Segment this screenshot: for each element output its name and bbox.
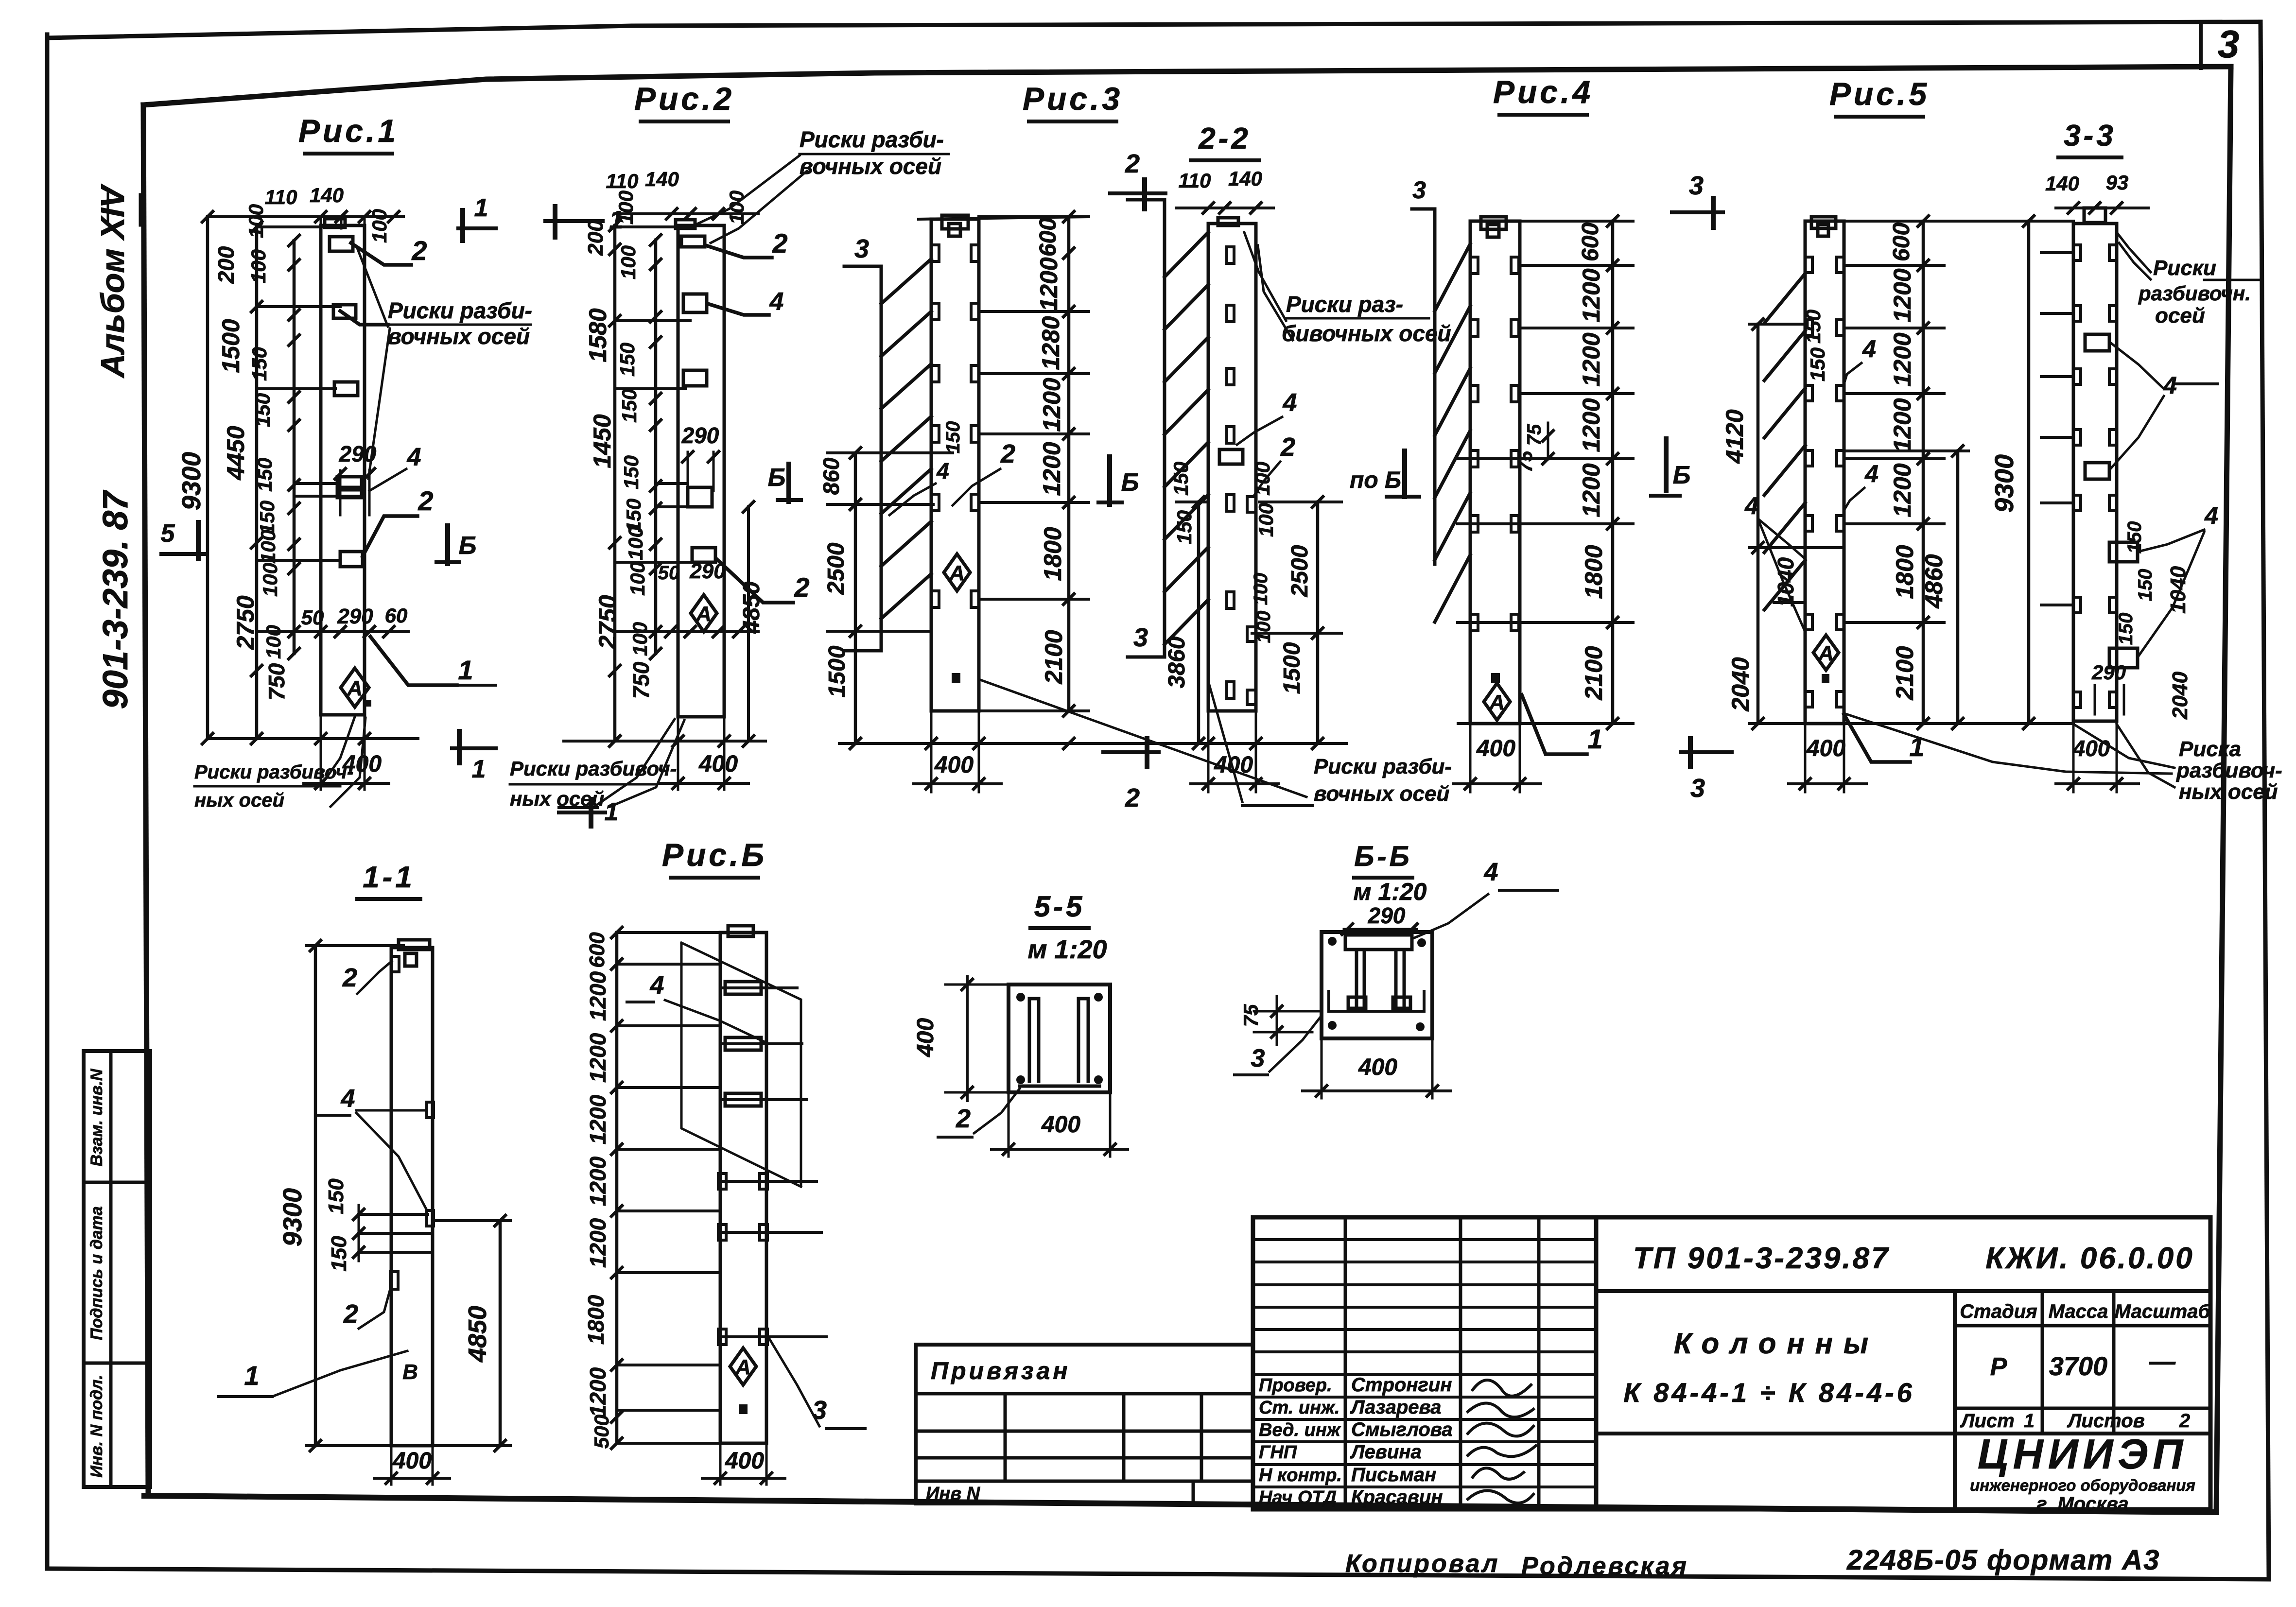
svg-text:4: 4 <box>2204 502 2218 529</box>
svg-text:2: 2 <box>1280 432 1295 462</box>
svg-text:100: 100 <box>624 526 647 560</box>
svg-text:2100: 2100 <box>1040 630 1067 684</box>
svg-text:Письман: Письман <box>1351 1464 1436 1486</box>
svg-text:4: 4 <box>1862 335 1876 363</box>
svg-text:Стронгин: Стронгин <box>1351 1374 1452 1396</box>
svg-text:4120: 4120 <box>1721 409 1748 464</box>
svg-text:1200: 1200 <box>1038 378 1065 432</box>
svg-text:2: 2 <box>1125 149 1140 178</box>
svg-text:3860: 3860 <box>1164 636 1190 688</box>
svg-text:Лазарева: Лазарева <box>1350 1397 1441 1418</box>
svg-text:вочных осей: вочных осей <box>388 324 530 349</box>
svg-text:2-2: 2-2 <box>1198 122 1251 156</box>
svg-text:600: 600 <box>1889 223 1914 261</box>
svg-text:1800: 1800 <box>1580 545 1607 599</box>
svg-text:400: 400 <box>698 751 738 777</box>
svg-text:400: 400 <box>913 1018 939 1057</box>
svg-text:4: 4 <box>650 971 664 1000</box>
svg-text:600: 600 <box>585 932 609 968</box>
svg-text:150: 150 <box>1806 347 1829 381</box>
svg-text:А: А <box>1489 691 1505 714</box>
svg-text:290: 290 <box>337 605 373 628</box>
svg-text:93: 93 <box>2106 171 2129 194</box>
svg-text:2750: 2750 <box>594 595 621 649</box>
svg-text:г. Москва: г. Москва <box>2036 1493 2128 1515</box>
svg-text:100: 100 <box>626 562 649 596</box>
svg-text:Рис.5: Рис.5 <box>1829 76 1930 112</box>
svg-text:ных осей: ных осей <box>2179 780 2278 804</box>
svg-text:Риски разби-: Риски разби- <box>1314 755 1452 778</box>
svg-text:по Б: по Б <box>1350 467 1401 493</box>
svg-text:1: 1 <box>2024 1410 2035 1432</box>
svg-text:Лист: Лист <box>1960 1410 2015 1432</box>
svg-text:750: 750 <box>628 661 654 699</box>
svg-text:150: 150 <box>327 1236 351 1272</box>
svg-text:1200: 1200 <box>1578 463 1605 517</box>
svg-text:110: 110 <box>606 170 639 192</box>
svg-text:1200: 1200 <box>1889 398 1916 452</box>
svg-text:1200: 1200 <box>1038 442 1065 496</box>
svg-text:Привязан: Привязан <box>931 1357 1071 1384</box>
svg-text:4450: 4450 <box>222 426 249 480</box>
svg-text:150: 150 <box>256 501 278 535</box>
svg-text:1: 1 <box>605 798 619 826</box>
svg-text:100: 100 <box>725 190 748 225</box>
svg-text:600: 600 <box>1035 218 1061 257</box>
svg-text:2040: 2040 <box>2168 672 2192 720</box>
svg-text:1200: 1200 <box>1578 332 1605 386</box>
svg-text:бивочных осей: бивочных осей <box>1282 321 1451 346</box>
svg-text:200: 200 <box>213 246 239 284</box>
svg-text:140: 140 <box>645 168 679 190</box>
svg-text:м 1:20: м 1:20 <box>1354 878 1427 905</box>
svg-text:Рис.1: Рис.1 <box>298 113 399 149</box>
svg-text:150: 150 <box>616 343 639 377</box>
svg-text:150: 150 <box>620 455 643 489</box>
svg-text:Листов: Листов <box>2067 1410 2145 1432</box>
svg-text:100: 100 <box>247 249 270 283</box>
svg-text:400: 400 <box>1041 1112 1080 1138</box>
svg-text:Риски: Риски <box>2153 256 2216 280</box>
svg-text:1200: 1200 <box>1035 257 1062 311</box>
svg-text:901-3-239. 87: 901-3-239. 87 <box>96 490 135 709</box>
svg-text:3-3: 3-3 <box>2064 119 2116 153</box>
svg-text:400: 400 <box>1358 1054 1397 1080</box>
svg-text:2750: 2750 <box>232 595 259 650</box>
svg-text:140: 140 <box>310 184 344 207</box>
svg-text:Взам. инв.N: Взам. инв.N <box>87 1068 106 1166</box>
svg-text:Б: Б <box>459 532 477 560</box>
svg-text:110: 110 <box>265 186 297 208</box>
svg-text:4: 4 <box>936 458 949 484</box>
svg-text:150: 150 <box>618 389 641 423</box>
svg-text:3: 3 <box>812 1396 827 1425</box>
svg-text:2100: 2100 <box>1580 646 1607 700</box>
svg-text:Риски раз-: Риски раз- <box>1286 292 1403 317</box>
svg-text:9300: 9300 <box>1990 454 2019 513</box>
svg-text:100: 100 <box>257 530 279 564</box>
svg-text:разбивоч-: разбивоч- <box>2176 759 2282 782</box>
svg-text:Подпись и дата: Подпись и дата <box>87 1206 106 1340</box>
svg-text:150: 150 <box>942 421 964 454</box>
svg-text:Инв. N подл.: Инв. N подл. <box>87 1375 106 1478</box>
svg-text:75: 75 <box>1239 1004 1262 1027</box>
svg-text:Рис.2: Рис.2 <box>634 81 734 117</box>
svg-text:2: 2 <box>1125 783 1140 812</box>
svg-text:290: 290 <box>681 423 719 448</box>
svg-text:Вед. инж: Вед. инж <box>1259 1420 1341 1440</box>
svg-text:1500: 1500 <box>824 645 850 697</box>
svg-text:150: 150 <box>1173 510 1196 544</box>
svg-text:Левина: Левина <box>1350 1441 1422 1463</box>
svg-text:ГНП: ГНП <box>1259 1442 1297 1463</box>
svg-text:100: 100 <box>1254 503 1277 537</box>
svg-text:м 1:20: м 1:20 <box>1027 935 1107 964</box>
svg-text:1800: 1800 <box>583 1295 609 1345</box>
svg-text:100: 100 <box>368 209 391 243</box>
svg-text:3: 3 <box>1412 176 1426 204</box>
svg-text:2: 2 <box>417 485 433 516</box>
svg-text:1580: 1580 <box>584 308 611 362</box>
svg-text:150: 150 <box>1169 462 1192 496</box>
svg-text:3: 3 <box>1690 774 1705 803</box>
svg-text:150: 150 <box>251 393 274 427</box>
svg-text:2: 2 <box>956 1104 971 1133</box>
svg-text:1040: 1040 <box>2166 566 2190 614</box>
svg-text:Б: Б <box>1121 468 1139 497</box>
svg-text:150: 150 <box>248 347 271 381</box>
svg-text:2: 2 <box>772 228 787 259</box>
svg-text:ЦНИИЭП: ЦНИИЭП <box>1978 1431 2188 1478</box>
svg-text:Рис.4: Рис.4 <box>1493 74 1593 110</box>
svg-text:Инв N: Инв N <box>926 1484 981 1504</box>
svg-text:1800: 1800 <box>1891 545 1918 599</box>
svg-text:1200: 1200 <box>1578 398 1605 452</box>
svg-text:2040: 2040 <box>1727 657 1754 711</box>
svg-text:1500: 1500 <box>1279 642 1305 694</box>
svg-text:100: 100 <box>1253 611 1274 643</box>
svg-text:Риски разби-: Риски разби- <box>800 127 944 152</box>
svg-text:2: 2 <box>2179 1410 2190 1432</box>
svg-text:600: 600 <box>1578 223 1603 261</box>
svg-text:А: А <box>735 1355 751 1379</box>
svg-text:400: 400 <box>934 752 974 778</box>
svg-text:Н контр.: Н контр. <box>1259 1465 1342 1486</box>
svg-text:Масса: Масса <box>2049 1301 2108 1322</box>
svg-text:290: 290 <box>1368 903 1406 928</box>
svg-text:100: 100 <box>244 204 267 238</box>
svg-text:вочных осей: вочных осей <box>800 154 941 179</box>
svg-text:Масштаб: Масштаб <box>2115 1301 2211 1322</box>
svg-text:1450: 1450 <box>589 414 616 468</box>
svg-text:400: 400 <box>2072 736 2110 761</box>
svg-text:А: А <box>949 561 965 585</box>
svg-text:1200: 1200 <box>585 1156 610 1206</box>
svg-text:50: 50 <box>658 562 680 584</box>
svg-text:100: 100 <box>1251 462 1274 496</box>
svg-text:150: 150 <box>2115 613 2137 645</box>
svg-text:4860: 4860 <box>1920 554 1948 608</box>
svg-text:Р: Р <box>1990 1353 2007 1381</box>
svg-text:4850: 4850 <box>464 1306 492 1363</box>
svg-text:Б: Б <box>768 464 786 492</box>
svg-text:750: 750 <box>264 663 289 700</box>
svg-text:3: 3 <box>1133 623 1148 652</box>
svg-text:400: 400 <box>392 1448 432 1474</box>
svg-text:Риски разбивоч-: Риски разбивоч- <box>510 757 677 780</box>
svg-text:1: 1 <box>1587 724 1602 754</box>
svg-text:2: 2 <box>1000 439 1015 468</box>
svg-text:2: 2 <box>411 235 427 266</box>
svg-text:Альбом XIV: Альбом XIV <box>94 183 131 379</box>
svg-text:Стадия: Стадия <box>1960 1301 2037 1322</box>
svg-text:4: 4 <box>1744 492 1758 519</box>
svg-text:3: 3 <box>1689 171 1704 200</box>
svg-text:Б-Б: Б-Б <box>1354 841 1412 872</box>
svg-text:Рис.Б: Рис.Б <box>662 837 767 873</box>
svg-text:4: 4 <box>1283 389 1297 417</box>
svg-text:100: 100 <box>628 622 651 656</box>
svg-text:400: 400 <box>1476 736 1515 761</box>
svg-text:1200: 1200 <box>585 1218 610 1268</box>
svg-text:2100: 2100 <box>1891 646 1918 700</box>
svg-text:100: 100 <box>617 245 640 279</box>
svg-text:1200: 1200 <box>585 1094 610 1144</box>
svg-text:50: 50 <box>301 606 324 629</box>
svg-text:4850: 4850 <box>739 581 765 634</box>
svg-text:1200: 1200 <box>1578 268 1605 322</box>
svg-text:150: 150 <box>324 1178 348 1214</box>
svg-text:2248Б-05 формат А3: 2248Б-05 формат А3 <box>1846 1544 2160 1576</box>
svg-text:Риски разби-: Риски разби- <box>388 298 532 323</box>
svg-text:3: 3 <box>2218 22 2240 66</box>
svg-text:А: А <box>1818 641 1834 665</box>
svg-text:А: А <box>696 602 712 626</box>
svg-text:400: 400 <box>1214 752 1253 778</box>
svg-text:4: 4 <box>2163 372 2177 399</box>
svg-text:60: 60 <box>385 604 408 627</box>
svg-text:2500: 2500 <box>823 542 849 595</box>
svg-text:КЖИ. 06.0.00: КЖИ. 06.0.00 <box>1985 1242 2194 1275</box>
svg-text:5: 5 <box>161 519 175 548</box>
svg-text:1280: 1280 <box>1037 316 1064 370</box>
svg-text:2: 2 <box>342 963 357 992</box>
svg-text:400: 400 <box>1806 736 1845 761</box>
svg-text:осей: осей <box>2155 304 2205 328</box>
svg-text:500: 500 <box>590 1415 613 1449</box>
svg-text:1500: 1500 <box>217 319 244 373</box>
svg-text:1200: 1200 <box>585 971 610 1021</box>
svg-text:Ст. инж.: Ст. инж. <box>1259 1398 1340 1418</box>
svg-text:110: 110 <box>1179 169 1211 192</box>
svg-text:150: 150 <box>1802 310 1825 344</box>
svg-text:Смыглова: Смыглова <box>1351 1419 1453 1440</box>
svg-text:150: 150 <box>2135 569 2156 602</box>
svg-text:290: 290 <box>2091 661 2126 684</box>
svg-text:3: 3 <box>854 234 869 263</box>
svg-text:1200: 1200 <box>1889 332 1916 386</box>
svg-text:1-1: 1-1 <box>363 861 415 894</box>
svg-text:2500: 2500 <box>1287 545 1313 597</box>
svg-text:2: 2 <box>794 572 809 603</box>
svg-text:Риска: Риска <box>2179 737 2241 761</box>
svg-text:4: 4 <box>1484 858 1498 886</box>
svg-text:100: 100 <box>262 625 285 659</box>
svg-text:9300: 9300 <box>278 1188 307 1246</box>
svg-text:разбивочн.: разбивочн. <box>2138 282 2251 305</box>
svg-text:ных осей: ных осей <box>194 790 284 811</box>
svg-text:В: В <box>402 1360 418 1384</box>
svg-text:1: 1 <box>244 1360 259 1391</box>
svg-text:инженерного оборудования: инженерного оборудования <box>1970 1476 2195 1494</box>
svg-text:200: 200 <box>584 220 608 256</box>
svg-text:К 84-4-1 ÷ К 84-4-6: К 84-4-1 ÷ К 84-4-6 <box>1623 1377 1915 1408</box>
svg-text:1200: 1200 <box>1889 268 1916 322</box>
svg-text:вочных осей: вочных осей <box>1314 782 1449 806</box>
svg-text:140: 140 <box>1228 167 1262 190</box>
svg-text:Рис.3: Рис.3 <box>1023 81 1123 117</box>
svg-text:2: 2 <box>343 1299 358 1329</box>
svg-text:5-5: 5-5 <box>1034 890 1085 923</box>
svg-text:Родлевская: Родлевская <box>1521 1552 1688 1580</box>
svg-text:1: 1 <box>458 655 473 685</box>
svg-text:100: 100 <box>259 563 281 597</box>
svg-text:1: 1 <box>474 194 488 222</box>
svg-text:1: 1 <box>472 755 486 783</box>
svg-text:Красавин: Красавин <box>1351 1486 1443 1508</box>
svg-text:1200: 1200 <box>585 1367 610 1417</box>
svg-text:Колонны: Колонны <box>1674 1327 1879 1360</box>
svg-text:1: 1 <box>609 206 624 234</box>
svg-text:4: 4 <box>407 443 421 471</box>
svg-text:4: 4 <box>1864 460 1879 487</box>
svg-text:9300: 9300 <box>177 452 206 510</box>
svg-text:А: А <box>347 676 363 700</box>
svg-text:Нач ОТД: Нач ОТД <box>1259 1487 1337 1508</box>
svg-text:—: — <box>2149 1347 2176 1376</box>
svg-text:860: 860 <box>818 457 844 495</box>
svg-text:150: 150 <box>2124 521 2145 554</box>
svg-text:4: 4 <box>769 288 784 316</box>
svg-text:Копировал: Копировал <box>1345 1550 1499 1578</box>
svg-text:3: 3 <box>1251 1044 1265 1072</box>
svg-text:ТП 901-3-239.87: ТП 901-3-239.87 <box>1633 1242 1890 1275</box>
svg-text:1200: 1200 <box>1889 463 1916 517</box>
svg-text:400: 400 <box>725 1448 764 1474</box>
svg-text:4: 4 <box>341 1085 355 1113</box>
svg-text:140: 140 <box>2045 172 2079 195</box>
svg-text:100: 100 <box>1250 573 1271 605</box>
svg-text:Провер.: Провер. <box>1259 1375 1332 1396</box>
svg-text:1200: 1200 <box>585 1033 610 1083</box>
svg-text:150: 150 <box>253 458 276 492</box>
svg-text:75: 75 <box>1515 450 1536 472</box>
svg-text:3700: 3700 <box>2049 1352 2107 1381</box>
svg-text:Б: Б <box>1673 461 1691 489</box>
svg-text:1800: 1800 <box>1039 527 1066 581</box>
